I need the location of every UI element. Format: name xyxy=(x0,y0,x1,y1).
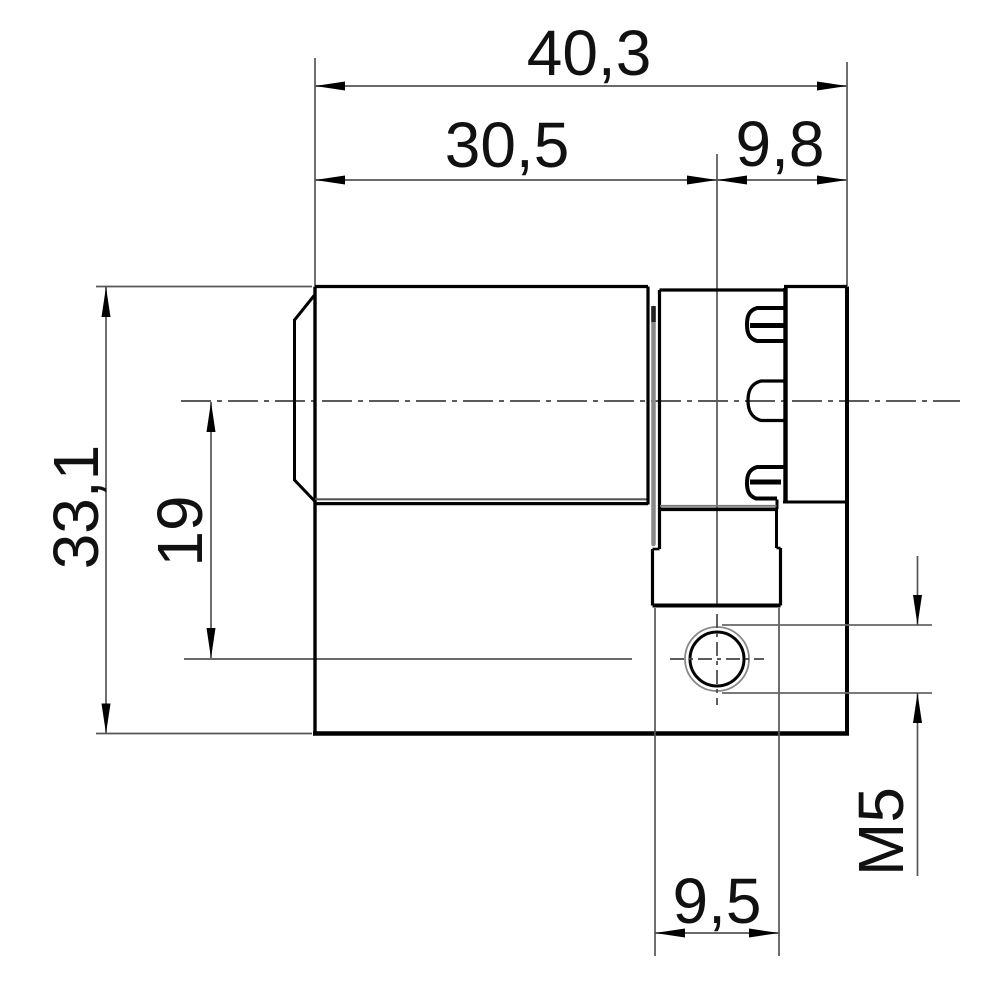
gray pin dark top xyxy=(651,306,656,322)
M5 tangent extension bottom xyxy=(722,692,932,694)
cam nose right upper edge xyxy=(775,509,778,548)
arrow 40,3 right xyxy=(817,82,847,91)
right housing left edge (merged with cam disc right edge) xyxy=(783,288,787,502)
body left edge xyxy=(313,287,316,734)
right housing top edge xyxy=(784,285,847,288)
extension line 9,5 right xyxy=(778,608,780,956)
cam nose right lower edge xyxy=(779,548,782,606)
M5 dimension line lower xyxy=(917,693,919,876)
extension line hole axis (19 bottom) xyxy=(184,658,632,660)
cam disc left edge xyxy=(658,290,661,549)
arrow 19 top xyxy=(207,402,216,432)
arrow 30,5 right xyxy=(687,176,717,185)
arrow 40,3 left xyxy=(315,82,345,91)
dimension line 30,5 / 9,8 xyxy=(315,179,847,181)
svg-text:9,5: 9,5 xyxy=(673,865,762,937)
M5 arrow up xyxy=(913,693,922,723)
arrow 9,8 left xyxy=(717,176,747,185)
dimension line 19 xyxy=(210,402,212,658)
barrel top edge xyxy=(315,285,648,288)
cam nose left lower edge xyxy=(651,549,654,606)
svg-text:M5: M5 xyxy=(845,787,917,876)
tooth 3 right connector xyxy=(776,500,779,510)
M5 arrow down xyxy=(913,595,922,625)
barrel right edge xyxy=(646,287,649,505)
right housing bottom edge xyxy=(783,501,847,504)
dimension line 40,3 xyxy=(315,85,847,87)
cam nose right step xyxy=(777,547,781,550)
arrow 9,8 right xyxy=(817,176,847,185)
tooth 3 (bottom pin) xyxy=(747,467,786,499)
svg-text:30,5: 30,5 xyxy=(445,109,570,181)
svg-text:19: 19 xyxy=(144,495,216,566)
arrow 33,1 bottom xyxy=(102,704,111,734)
tooth 1 inner band xyxy=(750,323,786,328)
M5 hole circle xyxy=(690,632,744,686)
M5 dimension line upper xyxy=(917,556,919,625)
extension line right (x=847 above body) xyxy=(846,62,848,286)
svg-text:9,8: 9,8 xyxy=(736,108,825,180)
cam nose top edge xyxy=(660,507,777,511)
M5 thread circle xyxy=(685,627,749,691)
barrel bottom edge xyxy=(315,502,648,505)
arrow 19 bottom xyxy=(207,628,216,658)
dimension line 33,1 xyxy=(105,287,107,734)
svg-text:40,3: 40,3 xyxy=(527,17,652,89)
arrow 9,5 right xyxy=(749,929,779,938)
cam disc top edge xyxy=(660,288,784,291)
cam nose bottom edge xyxy=(653,604,781,608)
M5 tangent extension top xyxy=(722,624,932,626)
body right edge xyxy=(845,287,849,734)
extension line 33,1 bottom xyxy=(96,733,312,735)
body bottom edge xyxy=(313,731,849,736)
tooth 3 inner band xyxy=(750,480,781,485)
extension line 33,1 top xyxy=(96,286,312,288)
cam nose left step xyxy=(653,548,660,551)
arrow 30,5 left xyxy=(315,176,345,185)
arrow 33,1 top xyxy=(102,287,111,317)
svg-text:33,1: 33,1 xyxy=(40,445,112,570)
tooth 1 (top pin) xyxy=(747,308,786,341)
extension line 9,5 left xyxy=(654,608,656,956)
arrow 9,5 left xyxy=(655,929,685,938)
chamfered plug face xyxy=(295,295,316,502)
hole centermark horizontal xyxy=(670,658,764,660)
extension line middle (x=717) xyxy=(716,154,718,606)
main centerline (cylinder axis) xyxy=(181,400,960,402)
barrel bottom edge upper (gray) xyxy=(315,498,648,500)
cam nose top edge gray fringe xyxy=(660,505,777,507)
hole centermark vertical xyxy=(716,614,718,705)
tooth 2 (middle pin) xyxy=(748,381,786,421)
gray pin bar xyxy=(651,308,656,544)
extension line left (x=315 above body) xyxy=(314,58,316,286)
dimension line 9,5 xyxy=(655,932,779,934)
